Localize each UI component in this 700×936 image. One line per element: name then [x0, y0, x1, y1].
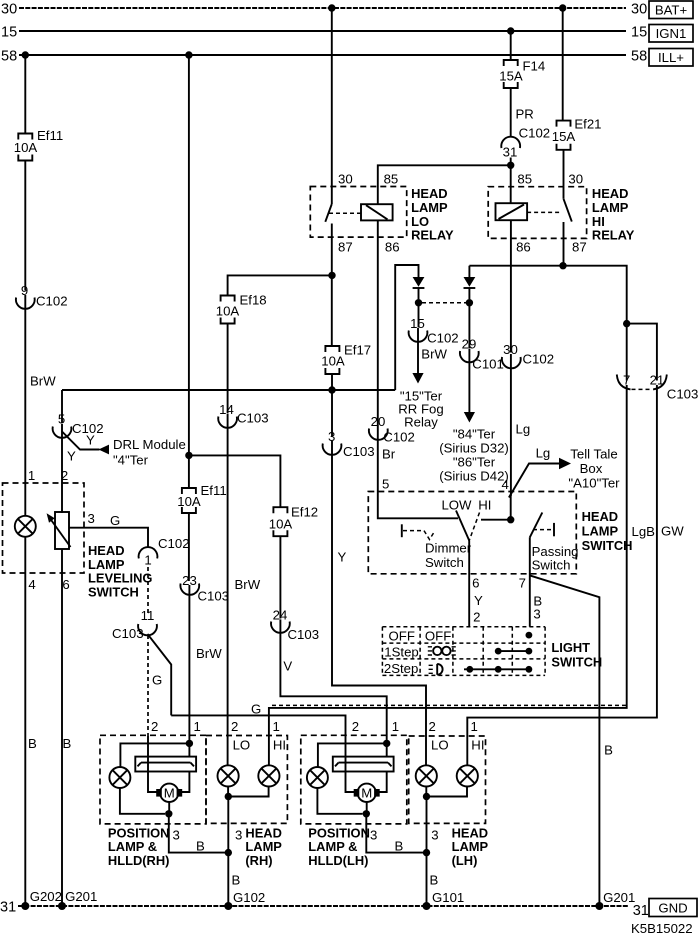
svg-text:11: 11	[141, 608, 155, 623]
svg-text:BrW: BrW	[196, 646, 222, 661]
svg-text:LIGHT: LIGHT	[551, 640, 590, 655]
arrow to RR fog relay	[412, 373, 423, 384]
junction on bus 30 at Ef21 feed	[559, 4, 566, 11]
wire Ef18 branch from LO relay 87	[228, 275, 332, 295]
label Lg tell tale	[536, 446, 551, 461]
wire pin1 RH into HLLD unit	[188, 743, 190, 756]
head lamp LO relay box	[310, 187, 406, 238]
head lamp symbol 2Step	[429, 664, 443, 675]
wire Ef17 to BrW junction and connector 3 C103	[331, 374, 333, 436]
svg-text:(LH): (LH)	[452, 853, 478, 868]
wire V to position lamp LH pin 1	[280, 619, 386, 743]
wire LO 87 to Ef17	[331, 237, 333, 346]
LO relay name	[411, 186, 454, 242]
connector 20 C102	[369, 414, 415, 445]
svg-text:G202: G202	[30, 889, 62, 904]
arrow to tell tale box	[559, 458, 571, 470]
fuse Ef12 10A	[269, 505, 318, 537]
svg-text:10A: 10A	[269, 517, 293, 532]
wire diode2 to connector 29 C101	[468, 303, 470, 348]
svg-text:B: B	[430, 873, 439, 888]
svg-text:4: 4	[28, 577, 35, 592]
wire RH bulbs common	[228, 787, 269, 797]
wire leveling lamp to pin 4 rail	[24, 537, 26, 906]
wire HI LH to bulb	[466, 736, 468, 765]
wire riser BrW to diode 1	[395, 265, 418, 390]
pin 2 light switch label	[473, 610, 480, 625]
svg-text:20: 20	[371, 414, 386, 429]
junction pin 4 node	[507, 516, 514, 523]
svg-text:M: M	[361, 786, 372, 801]
fuse Ef11a 10A	[14, 128, 63, 161]
svg-text:HEAD: HEAD	[592, 186, 629, 201]
pin 2 head lamp RH	[231, 719, 238, 734]
svg-text:Relay: Relay	[404, 415, 438, 430]
label GW	[661, 524, 684, 539]
wire HI 86 down from coil	[510, 220, 512, 352]
wire LO RH to bulb	[227, 736, 229, 766]
svg-text:2: 2	[429, 719, 436, 734]
svg-text:V: V	[283, 659, 292, 674]
head lamp RH box	[206, 736, 287, 824]
svg-text:G201: G201	[603, 890, 635, 905]
label Tell Tale Box "A10"Ter	[568, 447, 620, 491]
LO relay dashed link	[329, 212, 361, 214]
svg-text:C101: C101	[472, 357, 504, 372]
wire 14 C103 down to head lamp RH LO pin 2	[227, 414, 229, 736]
fuse Ef11b 10A	[177, 483, 226, 513]
label B	[395, 839, 404, 854]
pin 6 leveling switch	[62, 577, 69, 592]
wire Ef11b to connector 23 C103	[188, 513, 190, 581]
pin 4 head lamp switch	[502, 477, 509, 492]
svg-text:HI: HI	[478, 498, 491, 513]
wire LgB down to connector 7 C103	[626, 324, 628, 381]
head lamp LH LO bulb	[416, 765, 437, 786]
passing switch blade	[530, 513, 543, 538]
svg-text:"4"Ter: "4"Ter	[113, 453, 149, 468]
position lamp HLLD RH box	[100, 735, 206, 824]
svg-text:31: 31	[0, 900, 16, 916]
svg-text:C103: C103	[667, 387, 699, 402]
svg-text:1: 1	[471, 719, 478, 734]
svg-text:C102: C102	[36, 294, 68, 309]
label Y pin 6	[474, 593, 483, 608]
light switch name	[551, 640, 602, 669]
label LgB	[632, 524, 656, 539]
pin 4 leveling switch	[28, 577, 35, 592]
lamp in leveling switch	[15, 516, 36, 537]
wire HI contact to pin 4 node	[481, 519, 511, 521]
svg-text:Ef18: Ef18	[240, 293, 267, 308]
pin 1 leveling switch	[28, 468, 35, 483]
svg-text:SWITCH: SWITCH	[551, 654, 602, 669]
svg-text:3: 3	[173, 828, 180, 843]
svg-text:ILL+: ILL+	[658, 50, 684, 65]
label BrW	[421, 347, 447, 362]
label BrW	[196, 646, 222, 661]
wire pin 3 RH headlamp to G102	[227, 797, 229, 907]
bus 15 IGN1	[1, 25, 693, 43]
svg-text:OFF: OFF	[389, 629, 415, 644]
wire motor LH to pin 3	[366, 802, 368, 814]
svg-text:HEAD: HEAD	[245, 825, 282, 840]
svg-text:HEAD: HEAD	[452, 825, 489, 840]
svg-text:LAMP: LAMP	[88, 557, 125, 572]
wire dashed G to HLLD RH pin 2	[147, 635, 149, 735]
wire Y from 3 C103 down to LO LH feed	[332, 441, 426, 736]
svg-text:86: 86	[385, 240, 400, 255]
HI relay dashed link	[527, 211, 562, 213]
arrow to DRL module	[99, 445, 110, 455]
wire lamp LH to motor node	[317, 788, 362, 814]
wire GW down	[467, 385, 657, 736]
svg-text:C103: C103	[343, 444, 375, 459]
svg-text:Y: Y	[338, 550, 347, 565]
svg-text:15: 15	[631, 25, 647, 41]
pin 7 label	[519, 576, 526, 591]
junction on bus 30 at LO relay feed	[328, 4, 335, 11]
junction B bus RH	[225, 849, 232, 856]
dimmer switch blade LOW	[456, 511, 469, 541]
fuse F14 15A	[499, 59, 545, 89]
wire Lg down to head lamp switch pin 4	[510, 354, 512, 496]
junction B bus LH	[423, 849, 430, 856]
svg-text:2: 2	[352, 719, 359, 734]
svg-text:G201: G201	[65, 889, 97, 904]
pin 3 label RH headlamp	[235, 828, 242, 843]
connector 14 C103	[218, 402, 268, 428]
connector 15 C102	[409, 316, 459, 346]
head lamp leveling switch box	[3, 483, 85, 573]
pin 1 position lamp LH	[392, 719, 399, 734]
svg-text:Lg: Lg	[516, 422, 531, 437]
diode D1	[413, 277, 425, 299]
svg-text:RELAY: RELAY	[592, 228, 635, 243]
position lamp HLLD LH box	[301, 735, 407, 824]
junction on bus 58 left rail	[22, 51, 29, 58]
connector 23 C103	[180, 573, 229, 604]
svg-text:Y: Y	[474, 593, 483, 608]
svg-text:3: 3	[533, 607, 540, 622]
svg-text:LAMP: LAMP	[452, 839, 489, 854]
svg-text:87: 87	[572, 240, 587, 255]
svg-text:Br: Br	[382, 447, 396, 462]
label G101	[432, 890, 464, 905]
label G102	[233, 890, 265, 905]
connector 9 C102	[16, 283, 68, 309]
svg-text:GND: GND	[658, 901, 687, 916]
wire pin 5 into dimmer	[378, 492, 458, 519]
svg-text:30: 30	[568, 172, 583, 187]
svg-text:M: M	[164, 786, 175, 801]
svg-text:1: 1	[273, 719, 280, 734]
svg-text:G: G	[251, 702, 261, 717]
svg-text:30: 30	[631, 2, 647, 18]
svg-text:LO: LO	[411, 214, 429, 229]
svg-text:C102: C102	[523, 352, 555, 367]
svg-text:Ef17: Ef17	[344, 343, 371, 358]
wire diode1 to connector 15 C102	[418, 303, 420, 328]
svg-text:10A: 10A	[216, 304, 240, 319]
label B pin 7	[533, 594, 542, 609]
connector 7 21 C103	[617, 373, 699, 402]
dashed tie between diode outputs	[422, 302, 466, 304]
junction diode 1 output	[415, 299, 422, 306]
ground G202	[21, 889, 62, 910]
junction LH common	[423, 793, 430, 800]
wire leveling pot to pin 6 rail	[61, 549, 63, 906]
svg-text:Switch: Switch	[425, 555, 464, 570]
LO relay switch contact	[325, 187, 332, 238]
HI relay coil	[496, 203, 528, 220]
head lamp LH HI bulb	[457, 765, 478, 786]
position lamp RH name	[108, 825, 170, 868]
HI relay name	[592, 186, 635, 242]
svg-text:15A: 15A	[552, 129, 576, 144]
svg-text:Ef11: Ef11	[37, 128, 63, 143]
svg-text:31: 31	[633, 903, 649, 919]
connector 24 C103	[271, 607, 319, 642]
label Passing Switch	[532, 544, 579, 573]
fuse Ef17 10A	[321, 343, 371, 375]
svg-text:C102: C102	[427, 331, 459, 346]
pin 2 leveling switch	[61, 468, 68, 483]
svg-text:HEAD: HEAD	[88, 543, 125, 558]
junction LO 87 Ef18 branch	[328, 272, 335, 279]
HI relay pin 85	[517, 172, 532, 187]
wire LgB to lamps	[269, 385, 627, 736]
wire LH bulbs common	[426, 787, 467, 797]
label G on hG	[251, 702, 261, 717]
wire bus15 to fuse F14	[510, 31, 512, 60]
connector 3 C103	[323, 429, 375, 459]
svg-text:1: 1	[28, 468, 35, 483]
fuse Ef21 15A	[552, 117, 602, 150]
light switch 1Step contacts	[495, 648, 532, 655]
junction RH common	[225, 793, 232, 800]
label Y	[338, 550, 347, 565]
svg-text:B: B	[232, 873, 241, 888]
pin 6 label	[472, 576, 479, 591]
wire B from pin 7 to ground rail G201	[529, 575, 599, 906]
HLLD RH motor M1	[156, 784, 182, 802]
wire Ef12 feed horizontal	[189, 455, 281, 507]
label PR	[516, 107, 534, 122]
label B G202 rail	[28, 736, 37, 751]
head lamp LH name	[452, 825, 489, 868]
junction Ef12 branch	[185, 452, 192, 459]
dashed companion of LgB feed	[272, 704, 626, 706]
arrow to Sirius	[464, 412, 475, 423]
svg-text:Lg: Lg	[536, 446, 551, 461]
svg-text:86: 86	[516, 240, 531, 255]
svg-text:30: 30	[1, 2, 17, 18]
svg-text:5: 5	[382, 477, 389, 492]
wire LO coil 85 to F14 node	[378, 165, 511, 204]
leveling switch name	[88, 543, 152, 599]
wire HLLD RH right side to motor	[182, 772, 190, 793]
wire Ef12 to connector 24 C103	[279, 536, 281, 618]
junction pin 1 RH node	[186, 740, 193, 747]
wire motor RH to pin 3	[168, 802, 170, 814]
svg-text:2Step: 2Step	[384, 661, 418, 676]
svg-text:3: 3	[431, 828, 438, 843]
diode D2	[464, 277, 476, 299]
svg-text:"86"Ter: "86"Ter	[453, 455, 496, 470]
junction BrW at Ef17 output	[328, 386, 335, 393]
svg-text:Y: Y	[86, 433, 95, 448]
connector 1 C102	[139, 536, 190, 568]
svg-text:3: 3	[235, 828, 242, 843]
connector 30 C102	[502, 342, 554, 368]
label LO LH	[431, 738, 449, 753]
svg-text:G101: G101	[432, 890, 464, 905]
svg-text:Ef11: Ef11	[201, 483, 227, 498]
svg-text:B: B	[63, 736, 72, 751]
wire HLLD LH right side to motor	[379, 772, 387, 793]
svg-text:(RH): (RH)	[245, 853, 272, 868]
label "15"Ter RR Fog Relay	[398, 389, 443, 430]
label B ground rail	[604, 743, 613, 758]
light switch row 1Step	[384, 645, 418, 660]
svg-text:C103: C103	[112, 626, 144, 641]
light switch 2Step contacts	[464, 666, 532, 673]
label "84"Ter Sirius	[439, 427, 509, 484]
position lamp LH bulb	[307, 767, 328, 788]
svg-text:58: 58	[1, 49, 17, 65]
label B G101	[430, 873, 439, 888]
svg-text:10A: 10A	[14, 140, 38, 155]
potentiometer in leveling switch	[47, 512, 71, 549]
wire hG horizontal to HLLD LH pin 2	[171, 715, 345, 735]
position lamp LH name	[308, 825, 370, 868]
pin 3 label RH	[173, 828, 180, 843]
wire Ef21 to HI relay switch	[563, 150, 565, 187]
bus 30 BAT+	[1, 1, 693, 19]
wire passing pin 7 to light switch	[529, 537, 531, 627]
svg-text:Y: Y	[67, 449, 76, 464]
svg-text:LAMP: LAMP	[411, 200, 448, 215]
label HI	[478, 498, 491, 513]
wire pin2 LH through HLLD to motor	[346, 735, 355, 792]
svg-text:F14: F14	[523, 59, 546, 74]
position lamp RH bulb	[109, 767, 130, 788]
LO relay pin 85	[384, 172, 399, 187]
svg-text:85: 85	[517, 172, 532, 187]
svg-text:HI: HI	[592, 214, 605, 229]
diagram id K5B15022	[631, 921, 693, 936]
wire HI 87 horizontal to diode2 and LgB riser	[469, 266, 626, 324]
wire 58 rail to fuse Ef11a	[24, 55, 26, 134]
wire lamp RH to motor node	[120, 788, 165, 814]
HLLD LH motor M2	[354, 784, 380, 802]
svg-text:1: 1	[144, 553, 151, 568]
junction on bus 15 at F14 feed	[507, 27, 514, 34]
HI relay pin 87	[572, 240, 587, 255]
svg-text:GW: GW	[661, 524, 684, 539]
wire 58 rail down to Ef11b	[188, 55, 190, 488]
wire pin 4 vertical	[510, 496, 512, 520]
head lamp LH box	[409, 736, 486, 823]
svg-text:15: 15	[1, 25, 17, 41]
wire HI 87 branch to diode 2	[468, 266, 470, 277]
dimmer switch dashed blade HI	[469, 513, 479, 541]
svg-text:Switch: Switch	[532, 558, 571, 573]
junction diode 2 output	[466, 299, 473, 306]
svg-text:G: G	[110, 513, 120, 528]
head lamp RH name	[245, 825, 282, 868]
svg-text:Ef12: Ef12	[291, 505, 318, 520]
head lamp switch name	[582, 509, 633, 553]
svg-text:C103: C103	[237, 411, 269, 426]
svg-text:HI: HI	[471, 738, 484, 753]
svg-text:6: 6	[62, 577, 69, 592]
connector 5 C102	[53, 412, 104, 438]
LO relay pin 86	[385, 240, 400, 255]
svg-text:BrW: BrW	[30, 374, 56, 389]
svg-text:3: 3	[370, 828, 377, 843]
svg-text:2: 2	[61, 468, 68, 483]
svg-text:G102: G102	[233, 890, 265, 905]
wire 9 C102 down left rail to leveling switch pin 1	[24, 295, 26, 516]
pin 5 head lamp switch	[382, 477, 389, 492]
pin 3 leveling switch	[88, 511, 95, 526]
bus 58 ILL+	[1, 49, 693, 67]
label Y leveling pin 2 wire	[67, 449, 76, 464]
svg-text:SWITCH: SWITCH	[88, 584, 139, 599]
svg-text:LAMP: LAMP	[245, 839, 282, 854]
svg-text:30: 30	[338, 172, 353, 187]
fuse Ef18 10A	[216, 293, 267, 324]
wire pin1 RH to lamp and HLLD	[120, 743, 189, 767]
label LOW	[441, 498, 472, 513]
HI relay pin 30	[568, 172, 583, 187]
label BrW on Ef18 wire	[235, 577, 261, 592]
pin 3 label LH	[370, 828, 377, 843]
svg-text:C102: C102	[383, 430, 415, 445]
wire pin1 LH to lamp	[318, 743, 387, 767]
svg-text:BAT+: BAT+	[655, 3, 688, 18]
wire 5 C102 down to leveling switch pin 2	[61, 432, 63, 514]
svg-text:Ef21: Ef21	[574, 117, 601, 132]
svg-text:LO: LO	[431, 738, 449, 753]
svg-text:14: 14	[219, 402, 234, 417]
svg-text:(Sirius D32): (Sirius D32)	[439, 441, 509, 456]
label B G201 rail	[63, 736, 72, 751]
wire 29 C101 to Sirius arrow	[468, 349, 470, 413]
wire bus30 to LO relay pin 30	[331, 8, 333, 187]
svg-text:HLLD(RH): HLLD(RH)	[108, 853, 170, 868]
pin 1 position lamp RH	[194, 719, 201, 734]
svg-text:2: 2	[151, 719, 158, 734]
svg-text:POSITION: POSITION	[308, 825, 370, 840]
label B G102	[232, 873, 241, 888]
dimmer switch contact guide	[402, 524, 435, 539]
svg-text:B: B	[395, 839, 404, 854]
svg-text:3: 3	[88, 511, 95, 526]
passing switch contact guide	[533, 523, 554, 536]
svg-text:Box: Box	[580, 461, 603, 476]
HLLD LH unit	[333, 757, 394, 772]
svg-text:G: G	[152, 673, 162, 688]
wire F14 to connector 31 C102	[510, 88, 512, 137]
connector 31 C102	[501, 126, 550, 160]
svg-text:LAMP &: LAMP &	[108, 839, 157, 854]
wire LO coil 86 down to head lamp switch pin 5	[377, 220, 379, 491]
wire pin2 RH through HLLD to motor	[148, 735, 157, 792]
HI relay pin 86	[516, 240, 531, 255]
